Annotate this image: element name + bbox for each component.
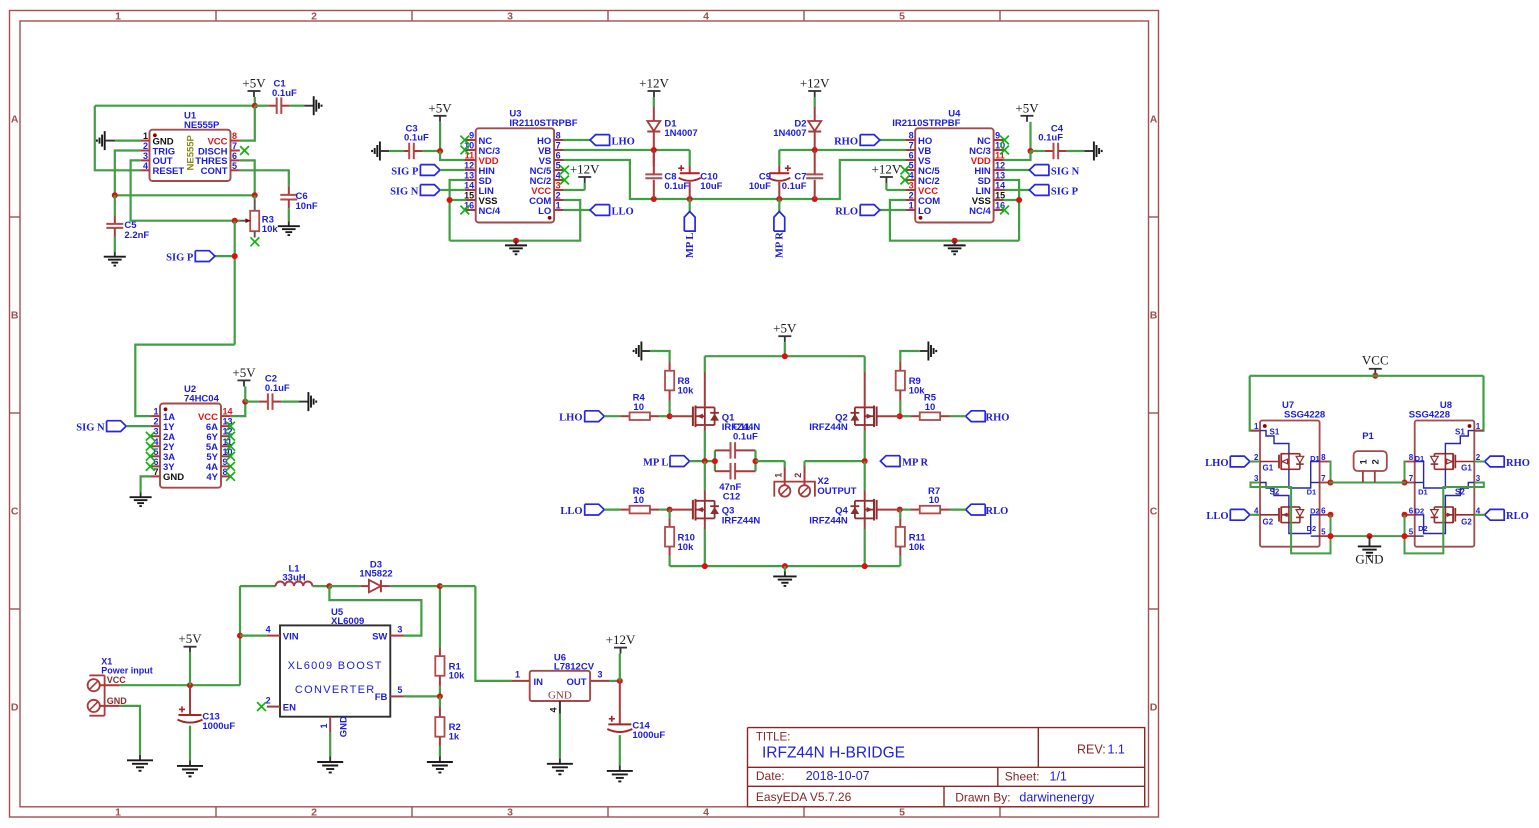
svg-text:0.1uF: 0.1uF <box>265 383 290 394</box>
svg-text:+5V: +5V <box>242 76 266 91</box>
svg-text:7: 7 <box>556 141 561 151</box>
svg-text:2: 2 <box>909 191 914 201</box>
net flag SIG N U2 <box>76 421 150 434</box>
svg-text:1: 1 <box>115 807 121 819</box>
svg-text:OUTPUT: OUTPUT <box>817 486 856 497</box>
svg-text:D2: D2 <box>1310 506 1320 515</box>
no-connect X U3 pins 5 4 <box>560 166 569 185</box>
svg-text:10k: 10k <box>909 542 926 553</box>
wire U5 GND <box>329 732 331 756</box>
svg-text:MP R: MP R <box>775 232 786 258</box>
svg-text:6: 6 <box>556 151 561 161</box>
svg-text:LLO: LLO <box>612 207 634 218</box>
svg-text:darwinenergy: darwinenergy <box>1019 791 1095 805</box>
power +5V U4 <box>1015 100 1039 154</box>
svg-text:D2: D2 <box>1415 506 1425 515</box>
wire SW loop <box>329 586 421 636</box>
svg-text:GND: GND <box>107 696 128 706</box>
svg-text:10uF: 10uF <box>749 181 771 192</box>
svg-text:5: 5 <box>909 161 914 171</box>
wire VCC pin8 U1 <box>240 106 255 141</box>
wire U3 VS <box>564 160 780 202</box>
svg-text:4Y: 4Y <box>206 472 218 483</box>
svg-text:2: 2 <box>311 807 317 819</box>
wire U8 S2 loop <box>1405 483 1484 554</box>
svg-text:NC/4: NC/4 <box>479 206 501 217</box>
resistor R2 1k <box>435 696 460 756</box>
wire U7 D2 down <box>1328 512 1334 536</box>
ground under U5 <box>317 757 343 773</box>
resistor R4 10 <box>620 393 669 420</box>
transistor Q4 IRFZ44N <box>809 461 876 566</box>
svg-text:XL6009 BOOST: XL6009 BOOST <box>288 660 383 672</box>
svg-text:8: 8 <box>1321 453 1326 462</box>
svg-text:12: 12 <box>464 161 474 171</box>
svg-text:2.2nF: 2.2nF <box>124 230 149 241</box>
svg-text:A: A <box>11 114 19 126</box>
svg-text:2018-10-07: 2018-10-07 <box>806 769 870 783</box>
power +5V H-bridge <box>773 321 797 357</box>
svg-text:5: 5 <box>899 10 905 22</box>
svg-text:IRFZ44N: IRFZ44N <box>722 515 761 526</box>
capacitor C8 <box>645 150 689 199</box>
svg-text:3: 3 <box>507 10 513 22</box>
sheet border frame <box>10 10 1159 818</box>
svg-text:1: 1 <box>115 10 121 22</box>
svg-text:2: 2 <box>1371 459 1382 464</box>
svg-text:2: 2 <box>556 191 561 201</box>
svg-text:5: 5 <box>1321 528 1326 537</box>
capacitor C2 <box>245 374 299 410</box>
wire output row P1 <box>1329 482 1406 484</box>
node gate Q2 <box>877 413 903 419</box>
svg-text:6: 6 <box>1409 506 1414 515</box>
transistor Q2 IRFZ44N <box>809 356 876 461</box>
svg-text:4: 4 <box>909 171 914 181</box>
svg-text:1000uF: 1000uF <box>202 721 235 732</box>
net flag RHO right <box>1474 456 1530 469</box>
title block <box>748 728 1145 807</box>
svg-text:SIG P: SIG P <box>391 166 419 177</box>
capacitor C7 <box>782 150 824 199</box>
svg-text:6: 6 <box>1321 506 1326 515</box>
svg-text:MP L: MP L <box>643 458 668 469</box>
wire U3 SD-VSS <box>447 180 467 241</box>
wire U6 GND <box>559 714 561 759</box>
ground under U4 <box>944 241 966 255</box>
wire VCC rail right section <box>1250 376 1484 431</box>
svg-text:5: 5 <box>232 161 237 171</box>
transistor Q3 IRFZ44N <box>693 461 760 566</box>
capacitor C4 <box>1031 123 1085 159</box>
wire U3 VB <box>564 147 690 153</box>
gate driver U3 IR2110STRPBF <box>464 109 578 223</box>
svg-text:SIG N: SIG N <box>390 186 419 197</box>
capacitor C9 <box>749 150 791 199</box>
svg-text:1k: 1k <box>449 732 460 743</box>
power +5V X1 <box>178 631 202 685</box>
svg-text:LLO: LLO <box>1206 511 1228 522</box>
wire U2 VCC <box>230 399 248 417</box>
svg-text:IR2110STRPBF: IR2110STRPBF <box>509 118 577 129</box>
node gate Q3 <box>667 507 693 513</box>
resistor R7 10 <box>900 486 950 513</box>
svg-text:1N4007: 1N4007 <box>773 128 806 139</box>
op-amp U1 NE555P <box>140 110 240 181</box>
svg-text:D1: D1 <box>1307 488 1317 497</box>
svg-text:1N4007: 1N4007 <box>664 128 697 139</box>
wire +5V rail to U1 area <box>95 105 255 107</box>
net flag MP L H-bridge <box>643 456 715 469</box>
svg-text:RHO: RHO <box>834 137 858 148</box>
svg-text:0.1uF: 0.1uF <box>664 181 689 192</box>
ground right of C1 <box>305 96 322 115</box>
svg-text:+5V: +5V <box>428 100 452 115</box>
svg-text:C: C <box>11 506 19 518</box>
svg-text:FB: FB <box>375 692 388 703</box>
ground under R2 <box>427 757 453 773</box>
svg-text:2: 2 <box>793 473 803 478</box>
svg-text:EN: EN <box>283 702 296 713</box>
svg-text:LO: LO <box>538 206 551 217</box>
svg-text:1: 1 <box>1476 422 1481 431</box>
svg-text:SIG N: SIG N <box>76 422 105 433</box>
svg-text:G2: G2 <box>1461 518 1472 527</box>
svg-text:VCC: VCC <box>1362 353 1389 368</box>
svg-text:+5V: +5V <box>232 365 256 380</box>
svg-text:RESET: RESET <box>153 166 185 177</box>
svg-text:LHO: LHO <box>1205 458 1228 469</box>
wire U3 COM rail <box>450 200 581 244</box>
svg-text:MP R: MP R <box>902 458 928 469</box>
wire VDD U3 <box>440 151 466 160</box>
ground right section <box>1355 536 1383 566</box>
svg-text:5: 5 <box>397 685 402 695</box>
net flag RLO U4 <box>835 205 906 218</box>
svg-text:GND: GND <box>163 472 184 483</box>
connector X1 power input <box>88 657 153 716</box>
svg-text:1/1: 1/1 <box>1050 770 1067 784</box>
net flag SIG P <box>166 251 215 264</box>
svg-text:IRFZ44N H-BRIDGE: IRFZ44N H-BRIDGE <box>762 745 905 762</box>
resistor R6 10 <box>620 486 669 513</box>
ground under C13 <box>177 760 203 776</box>
net flag LLO right <box>1206 509 1260 522</box>
svg-text:1: 1 <box>909 201 914 211</box>
wire U4 VB <box>779 147 906 153</box>
resistor R3 10k trimmer <box>232 195 279 237</box>
inverter U2 74HC04 <box>151 384 233 488</box>
svg-text:2: 2 <box>143 141 148 151</box>
svg-text:4: 4 <box>703 10 709 22</box>
wire top rail <box>705 353 865 359</box>
svg-text:A: A <box>1150 114 1158 126</box>
svg-text:IRFZ44N: IRFZ44N <box>809 515 848 526</box>
ground under U6 <box>547 758 573 774</box>
svg-text:MP L: MP L <box>685 233 696 258</box>
svg-text:+12V: +12V <box>606 632 636 647</box>
ground under U2 <box>130 493 152 507</box>
wire D3 to U6 <box>440 586 512 681</box>
net flag MP R <box>774 199 786 258</box>
svg-text:IN: IN <box>534 677 544 688</box>
wire U4 COM rail <box>890 200 1019 244</box>
svg-text:NC/4: NC/4 <box>969 206 991 217</box>
svg-text:XL6009: XL6009 <box>331 616 364 627</box>
net flag LHO right <box>1205 456 1260 469</box>
svg-text:RHO: RHO <box>986 413 1010 424</box>
svg-text:1: 1 <box>143 131 148 141</box>
power +5V U2 <box>232 365 256 402</box>
svg-text:LHO: LHO <box>559 413 582 424</box>
wire TRIG to C5 <box>115 151 140 196</box>
svg-text:8: 8 <box>1409 453 1414 462</box>
svg-text:D2: D2 <box>1418 524 1428 533</box>
node MP L <box>702 458 708 464</box>
ground top-right H-bridge <box>900 342 936 362</box>
ground at U1 pin1 <box>97 131 140 150</box>
wire U7 D1 to out <box>1328 462 1334 486</box>
svg-text:LHO: LHO <box>612 137 635 148</box>
no-connect X under R3 <box>251 237 260 246</box>
wire THRES down <box>240 160 255 195</box>
power VCC right section <box>1362 353 1389 379</box>
svg-text:REV:: REV: <box>1077 742 1106 756</box>
diode D1 1N4007 <box>647 97 697 150</box>
svg-text:6: 6 <box>232 151 237 161</box>
svg-text:4: 4 <box>703 807 709 819</box>
wire FB node <box>404 693 443 699</box>
svg-text:10: 10 <box>633 402 644 413</box>
no-connect X U2 left pins <box>146 432 155 471</box>
svg-text:10: 10 <box>929 495 940 506</box>
svg-text:Date:: Date: <box>756 769 785 783</box>
ground under C5 <box>104 252 126 266</box>
svg-text:14: 14 <box>995 181 1005 191</box>
svg-text:1: 1 <box>153 407 158 417</box>
svg-text:3: 3 <box>507 807 513 819</box>
svg-text:6: 6 <box>909 151 914 161</box>
svg-text:1000uF: 1000uF <box>632 730 665 741</box>
dual mosfet U7 SSG4228 <box>1251 400 1329 547</box>
svg-text:0.1uF: 0.1uF <box>1038 133 1063 144</box>
svg-text:5: 5 <box>556 161 561 171</box>
transistor Q1 IRFZ44N <box>693 356 760 461</box>
svg-text:Power input: Power input <box>101 665 153 675</box>
svg-text:+12V: +12V <box>570 162 600 177</box>
wire MP L to X2 <box>756 460 785 462</box>
svg-text:9: 9 <box>469 131 474 141</box>
svg-text:8: 8 <box>232 131 237 141</box>
diode D2 1N4007 <box>773 97 821 150</box>
resistor R5 10 <box>900 393 950 420</box>
svg-text:RLO: RLO <box>986 506 1009 517</box>
wire U8 D2 down <box>1402 512 1408 536</box>
svg-text:RLO: RLO <box>835 207 858 218</box>
no-connect X U3 pins 9 10 16 <box>460 136 469 215</box>
capacitor C5 <box>106 195 149 252</box>
net flag LHO H-bridge <box>559 411 620 424</box>
wire VCC node to VIN <box>237 586 267 685</box>
svg-text:4: 4 <box>143 161 148 171</box>
power +12V at D1 <box>639 76 669 98</box>
svg-text:74HC04: 74HC04 <box>184 393 220 404</box>
wire U8 D1 to out <box>1402 462 1408 486</box>
svg-text:33uH: 33uH <box>282 573 305 584</box>
svg-text:9: 9 <box>995 131 1000 141</box>
svg-text:+12V: +12V <box>639 76 669 91</box>
svg-text:0.1uF: 0.1uF <box>404 133 429 144</box>
power +12V U6 <box>606 632 636 681</box>
resistor R11 10k <box>896 510 927 566</box>
wire U4 VS <box>776 160 906 202</box>
svg-text:S2: S2 <box>1455 488 1465 497</box>
svg-text:10k: 10k <box>909 386 926 397</box>
ground under U3 <box>505 241 527 255</box>
svg-text:1: 1 <box>515 670 520 680</box>
capacitor C1 <box>255 79 305 114</box>
svg-text:10k: 10k <box>678 386 695 397</box>
wire L1 to D3 <box>312 583 360 589</box>
regulator U5 XL6009 <box>266 607 404 737</box>
svg-text:1: 1 <box>319 723 329 728</box>
power +5V U1 <box>242 76 266 109</box>
svg-text:7: 7 <box>153 467 158 477</box>
node gate Q4 <box>877 507 903 513</box>
svg-text:2: 2 <box>153 417 158 427</box>
svg-text:7: 7 <box>1321 474 1326 483</box>
svg-text:EasyEDA V5.7.26: EasyEDA V5.7.26 <box>756 790 852 804</box>
svg-text:S1: S1 <box>1455 428 1465 437</box>
ground under C14 <box>607 765 633 781</box>
svg-text:S1: S1 <box>1270 428 1280 437</box>
net flag RHO U4 <box>834 135 906 148</box>
net flag RHO H-bridge <box>950 411 1010 424</box>
svg-text:VCC: VCC <box>107 675 127 685</box>
dual mosfet U8 SSG4228 <box>1405 400 1483 547</box>
power +12V U4 VCC <box>872 162 906 191</box>
net flag SIG N U4 <box>1005 165 1080 178</box>
wire GND row right section <box>1328 533 1408 539</box>
capacitor C14 <box>607 681 665 766</box>
svg-text:RLO: RLO <box>1506 511 1529 522</box>
svg-text:G1: G1 <box>1263 464 1274 473</box>
svg-text:B: B <box>1150 310 1158 322</box>
wire X1 VCC to +5V node <box>120 682 240 688</box>
svg-text:+5V: +5V <box>773 321 797 336</box>
net flag SIG P U4 <box>1005 185 1079 198</box>
svg-text:NE555P: NE555P <box>186 134 197 170</box>
svg-text:0.1uF: 0.1uF <box>272 88 297 99</box>
net flag LHO U3 <box>564 135 635 148</box>
svg-text:L7812CV: L7812CV <box>554 662 595 673</box>
net flag MP R H-bridge <box>880 456 928 469</box>
svg-text:1.1: 1.1 <box>1108 742 1125 756</box>
ground top-left H-bridge <box>634 342 670 362</box>
svg-text:B: B <box>11 310 19 322</box>
svg-text:3: 3 <box>909 181 914 191</box>
svg-text:D1: D1 <box>1415 454 1425 463</box>
capacitor C11 <box>712 422 758 471</box>
svg-text:VIN: VIN <box>283 631 299 642</box>
svg-text:Drawn By:: Drawn By: <box>955 791 1010 805</box>
svg-text:SIG N: SIG N <box>1051 166 1080 177</box>
net flag LLO H-bridge <box>560 504 620 517</box>
svg-text:10uF: 10uF <box>700 181 722 192</box>
svg-text:C: C <box>1150 506 1158 518</box>
wire CONT to C6 <box>240 170 289 186</box>
svg-text:4: 4 <box>549 707 559 712</box>
svg-text:8: 8 <box>909 131 914 141</box>
svg-text:10nF: 10nF <box>296 201 318 212</box>
capacitor C6 <box>280 186 318 221</box>
svg-text:LO: LO <box>918 206 931 217</box>
net flag LLO U3 <box>564 205 634 218</box>
wire SIG P chain to U2 <box>135 345 234 417</box>
resistor R9 10k <box>896 362 926 417</box>
connector P1 <box>1354 431 1387 483</box>
svg-text:5: 5 <box>899 807 905 819</box>
svg-text:P1: P1 <box>1362 431 1374 442</box>
svg-text:G2: G2 <box>1263 518 1274 527</box>
power +12V at D2 <box>800 76 830 98</box>
svg-text:10: 10 <box>925 402 936 413</box>
wire X1 GND <box>120 706 140 755</box>
svg-text:7: 7 <box>232 141 237 151</box>
capacitor C3 <box>389 123 440 159</box>
capacitor C12 <box>715 450 759 502</box>
inductor L1 33uH <box>276 563 313 586</box>
svg-text:OUT: OUT <box>566 677 586 688</box>
ground right of C2 <box>299 392 316 411</box>
svg-text:G1: G1 <box>1461 464 1472 473</box>
svg-text:SSG4228: SSG4228 <box>1284 409 1325 420</box>
svg-text:SIG P: SIG P <box>166 252 194 263</box>
svg-text:3: 3 <box>397 624 402 634</box>
svg-text:S2: S2 <box>1270 488 1280 497</box>
svg-text:4: 4 <box>266 624 271 634</box>
ground X1 GND <box>127 755 153 771</box>
svg-text:D2: D2 <box>1307 524 1317 533</box>
svg-text:10k: 10k <box>449 671 466 682</box>
svg-text:C12: C12 <box>723 491 740 502</box>
svg-text:RHO: RHO <box>1506 458 1530 469</box>
gate driver U4 IR2110STRPBF <box>892 109 1005 223</box>
ground H-bridge bottom <box>773 566 796 586</box>
ground under C6 <box>278 222 300 236</box>
resistor R1 10k <box>435 583 465 696</box>
svg-text:D1: D1 <box>1310 454 1320 463</box>
svg-text:D1: D1 <box>1418 488 1428 497</box>
resistor R10 10k <box>665 510 695 566</box>
svg-text:+5V: +5V <box>1015 100 1039 115</box>
svg-text:1N5822: 1N5822 <box>359 569 392 580</box>
svg-text:3: 3 <box>598 670 603 680</box>
no-connect X U2 right pins <box>226 422 235 481</box>
svg-text:4: 4 <box>556 171 561 181</box>
wire top boost rail <box>240 585 276 587</box>
svg-text:12: 12 <box>995 161 1005 171</box>
svg-text:LLO: LLO <box>560 506 582 517</box>
svg-text:+12V: +12V <box>800 76 830 91</box>
svg-text:2: 2 <box>311 10 317 22</box>
no-connect X U4 pins 5 4 <box>901 166 910 185</box>
resistor R8 10k <box>665 362 694 417</box>
svg-text:10k: 10k <box>262 224 279 235</box>
svg-text:SSG4228: SSG4228 <box>1409 409 1450 420</box>
no-connect X U5 EN <box>257 702 266 711</box>
svg-text:IR2110STRPBF: IR2110STRPBF <box>892 118 960 129</box>
